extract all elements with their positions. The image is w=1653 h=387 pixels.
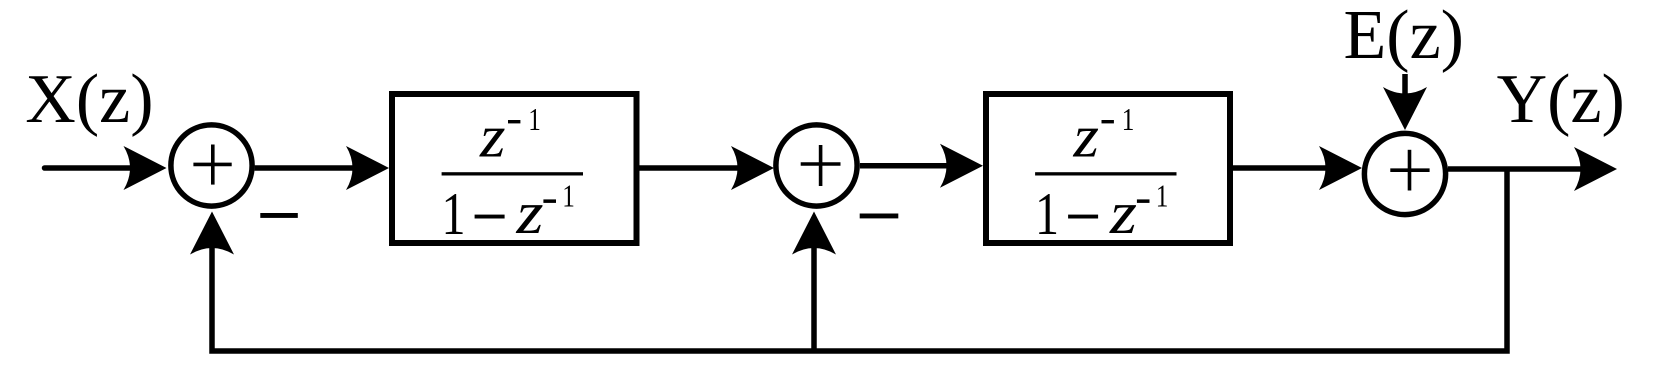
arrowhead into summer U1 — [124, 146, 167, 190]
svg-text:E(z): E(z) — [1344, 0, 1464, 74]
wire: block H1 to summer U2 — [639, 165, 742, 171]
wire: summer U3 to output Y(z) — [1448, 166, 1586, 172]
arrowhead feedback into summer U2 — [792, 212, 836, 255]
summer U1 (first summing junction) — [171, 125, 252, 206]
svg-text:1: 1 — [528, 101, 541, 137]
wire: summer U1 to block H1 — [255, 165, 357, 171]
wire: E(z) vertical stub — [1402, 74, 1408, 99]
svg-text:1: 1 — [1035, 181, 1059, 247]
block H2: integrator z^-1/(1-z^-1) — [986, 94, 1230, 243]
wire: block H2 to summer U3 — [1233, 165, 1331, 171]
plus sign in summer U3 — [1390, 150, 1429, 191]
arrowhead into summer U3 — [1319, 146, 1362, 190]
value label H2 denominator 1-z^-1 — [1035, 178, 1168, 248]
fraction bar H2 — [1035, 172, 1176, 175]
summer U3 (output summing junction) — [1364, 133, 1445, 214]
svg-text:z: z — [1072, 103, 1099, 169]
value label H2 numerator z^-1 — [1072, 101, 1134, 169]
svg-text:z: z — [1109, 180, 1137, 246]
svg-text:z: z — [515, 180, 543, 246]
value label H1 denominator 1-z^-1 — [442, 178, 575, 248]
arrowhead into summer U2 — [731, 146, 774, 190]
plus sign in summer U1 — [193, 145, 231, 185]
svg-text:1: 1 — [562, 178, 575, 214]
arrowhead from E(z) into summer U3 — [1383, 87, 1427, 130]
wire: feedback path from output down, across bottom, up to summer U1 — [212, 169, 1507, 351]
block H1: integrator z^-1/(1-z^-1) — [392, 94, 637, 243]
plus sign in summer U2 — [801, 145, 841, 186]
svg-text:z: z — [479, 103, 506, 169]
wire: feedback branch up to summer U2 — [811, 246, 817, 351]
fraction bar H1 — [442, 172, 583, 175]
svg-text:1: 1 — [1156, 178, 1169, 214]
wire: input line from X(z) — [45, 165, 137, 171]
svg-text:Y(z): Y(z) — [1497, 61, 1625, 138]
value label H1 numerator z^-1 — [479, 101, 541, 169]
svg-text:X(z): X(z) — [25, 61, 153, 138]
svg-text:1: 1 — [442, 181, 466, 247]
arrowhead into block H2 — [940, 144, 983, 188]
summer U2 (second summing junction) — [776, 125, 857, 206]
minus sign at summer U2 feedback input — [860, 214, 899, 219]
svg-text:1: 1 — [1122, 101, 1135, 137]
arrowhead at output Y(z) — [1574, 147, 1617, 191]
minus sign at summer U1 feedback input — [260, 213, 298, 218]
arrowhead feedback into summer U1 — [190, 212, 234, 255]
arrowhead into block H1 — [346, 146, 389, 190]
wire: summer U2 to block H2 — [860, 163, 952, 169]
